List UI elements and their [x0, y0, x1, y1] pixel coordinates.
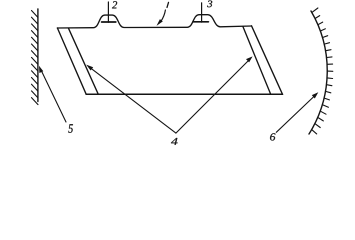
wall 5 hatching — [32, 11, 39, 105]
leader arrow from 4 to right end face — [176, 59, 251, 134]
fastener 2 crossbar — [102, 21, 116, 23]
plate right end face (inner line) — [243, 27, 271, 95]
label 6 — [270, 133, 275, 140]
fastener 2 pin — [107, 2, 109, 22]
label 5 — [68, 124, 73, 133]
label 2 — [112, 1, 117, 8]
plate 1 bottom edge — [86, 93, 282, 95]
curved wall 6 hatching — [312, 8, 333, 134]
plate left end face (inner line) — [69, 28, 99, 94]
leader arrow to 6 (points at curved wall) — [276, 95, 315, 132]
leader arrow from 4 to left end face — [89, 66, 176, 133]
plate right end face (outer line) — [252, 26, 283, 95]
leader arrow to 1 (curved) — [161, 10, 166, 22]
label 1 — [167, 2, 169, 7]
leader arrow to 5 (points at wall) — [41, 70, 66, 122]
fastener 3 pin — [201, 3, 203, 22]
plate 1 top edge with humps at fasteners 2 and 3 — [57, 15, 251, 28]
plate left end face (outer line) — [57, 28, 86, 94]
fastener 3 crossbar — [193, 21, 208, 23]
wall 5 (left fixed wall line) — [37, 9, 39, 102]
label 3 — [207, 1, 212, 8]
label 4 — [171, 138, 178, 145]
curved wall 6 (arc) — [309, 11, 327, 134]
